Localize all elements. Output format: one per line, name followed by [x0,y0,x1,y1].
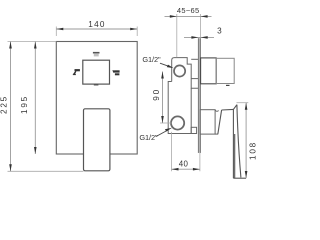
svg-text:G1/2": G1/2" [142,55,161,64]
svg-text:108: 108 [248,141,257,160]
svg-text:195: 195 [20,95,29,114]
svg-text:225: 225 [0,95,9,114]
svg-text:G1/2": G1/2" [139,133,158,142]
svg-text:90: 90 [152,88,161,101]
svg-text:45~65: 45~65 [177,6,200,15]
svg-text:140: 140 [88,20,106,29]
svg-text:40: 40 [179,159,189,168]
svg-text:3: 3 [217,27,223,36]
